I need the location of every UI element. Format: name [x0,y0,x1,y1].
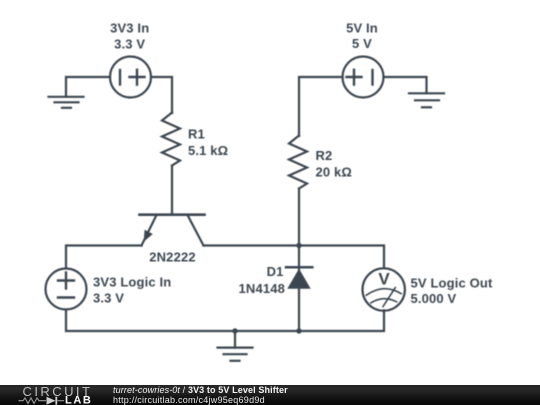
svg-text:20 kΩ: 20 kΩ [316,165,352,180]
wire R2 bottom to node A [298,189,300,246]
svg-text:1N4148: 1N4148 [239,281,285,296]
label R2 20 kOhm [316,148,352,180]
wire Q1 collector to voltmeter branch [204,246,385,269]
svg-text:V: V [378,270,390,289]
svg-text:R1: R1 [188,127,205,142]
resistor R1 [162,113,180,166]
label D1 1N4148 [239,264,285,296]
svg-text:LAB: LAB [65,394,92,405]
svg-text:5.000 V: 5.000 V [411,291,457,306]
ground G1 [49,97,84,108]
wire Q1 emitter to V3 top [66,246,142,269]
svg-text:5.1 kΩ: 5.1 kΩ [188,143,228,158]
footer bar [0,385,540,405]
CircuitLab logo [0,385,100,405]
resistor R2 [289,136,307,189]
transistor Q1 2N2222 [140,215,205,246]
svg-text:5V Logic Out: 5V Logic Out [411,276,493,291]
wire bottom rail to D1 bottom [235,330,299,332]
wire voltmeter bottom to bottom rail [299,310,384,331]
wire R1 bottom to Q1 base [171,166,173,215]
node A top junction [296,243,301,248]
wire V2 left to R2 top [299,77,343,136]
wire V2 right to ground [384,77,427,93]
svg-text:5V In: 5V In [346,21,378,36]
svg-text:5 V: 5 V [352,36,372,51]
label V2 5V In [346,21,378,52]
svg-text:2N2222: 2N2222 [149,250,195,265]
wire V3 bottom to bottom rail [66,310,235,332]
node D1 bottom junction [296,328,301,333]
node bottom-ground junction [232,328,237,333]
voltage source V2 5V In [343,57,384,98]
label V3 3V3 Logic In [93,275,171,306]
svg-text:D1: D1 [267,264,284,279]
label M1 5V Logic Out [411,276,493,306]
svg-text:3.3 V: 3.3 V [114,37,145,52]
voltage source V1 3V3 In [110,57,151,98]
svg-text:3V3 In: 3V3 In [110,21,149,36]
ground G3 [218,331,253,361]
svg-text:R2: R2 [316,148,333,163]
svg-text:3V3 Logic In: 3V3 Logic In [93,275,171,290]
wire V1 left to ground [66,77,110,97]
label R1 5.1 kOhm [188,127,228,159]
diode D1 1N4148 [286,246,312,332]
wire V1 right to R1 top [151,77,172,113]
voltmeter M1 [363,268,405,310]
svg-text:3.3 V: 3.3 V [93,291,124,306]
voltage source V3 3V3 Logic In [46,269,87,310]
label V1 3V3 In [110,21,149,52]
ground G2 [409,93,444,107]
